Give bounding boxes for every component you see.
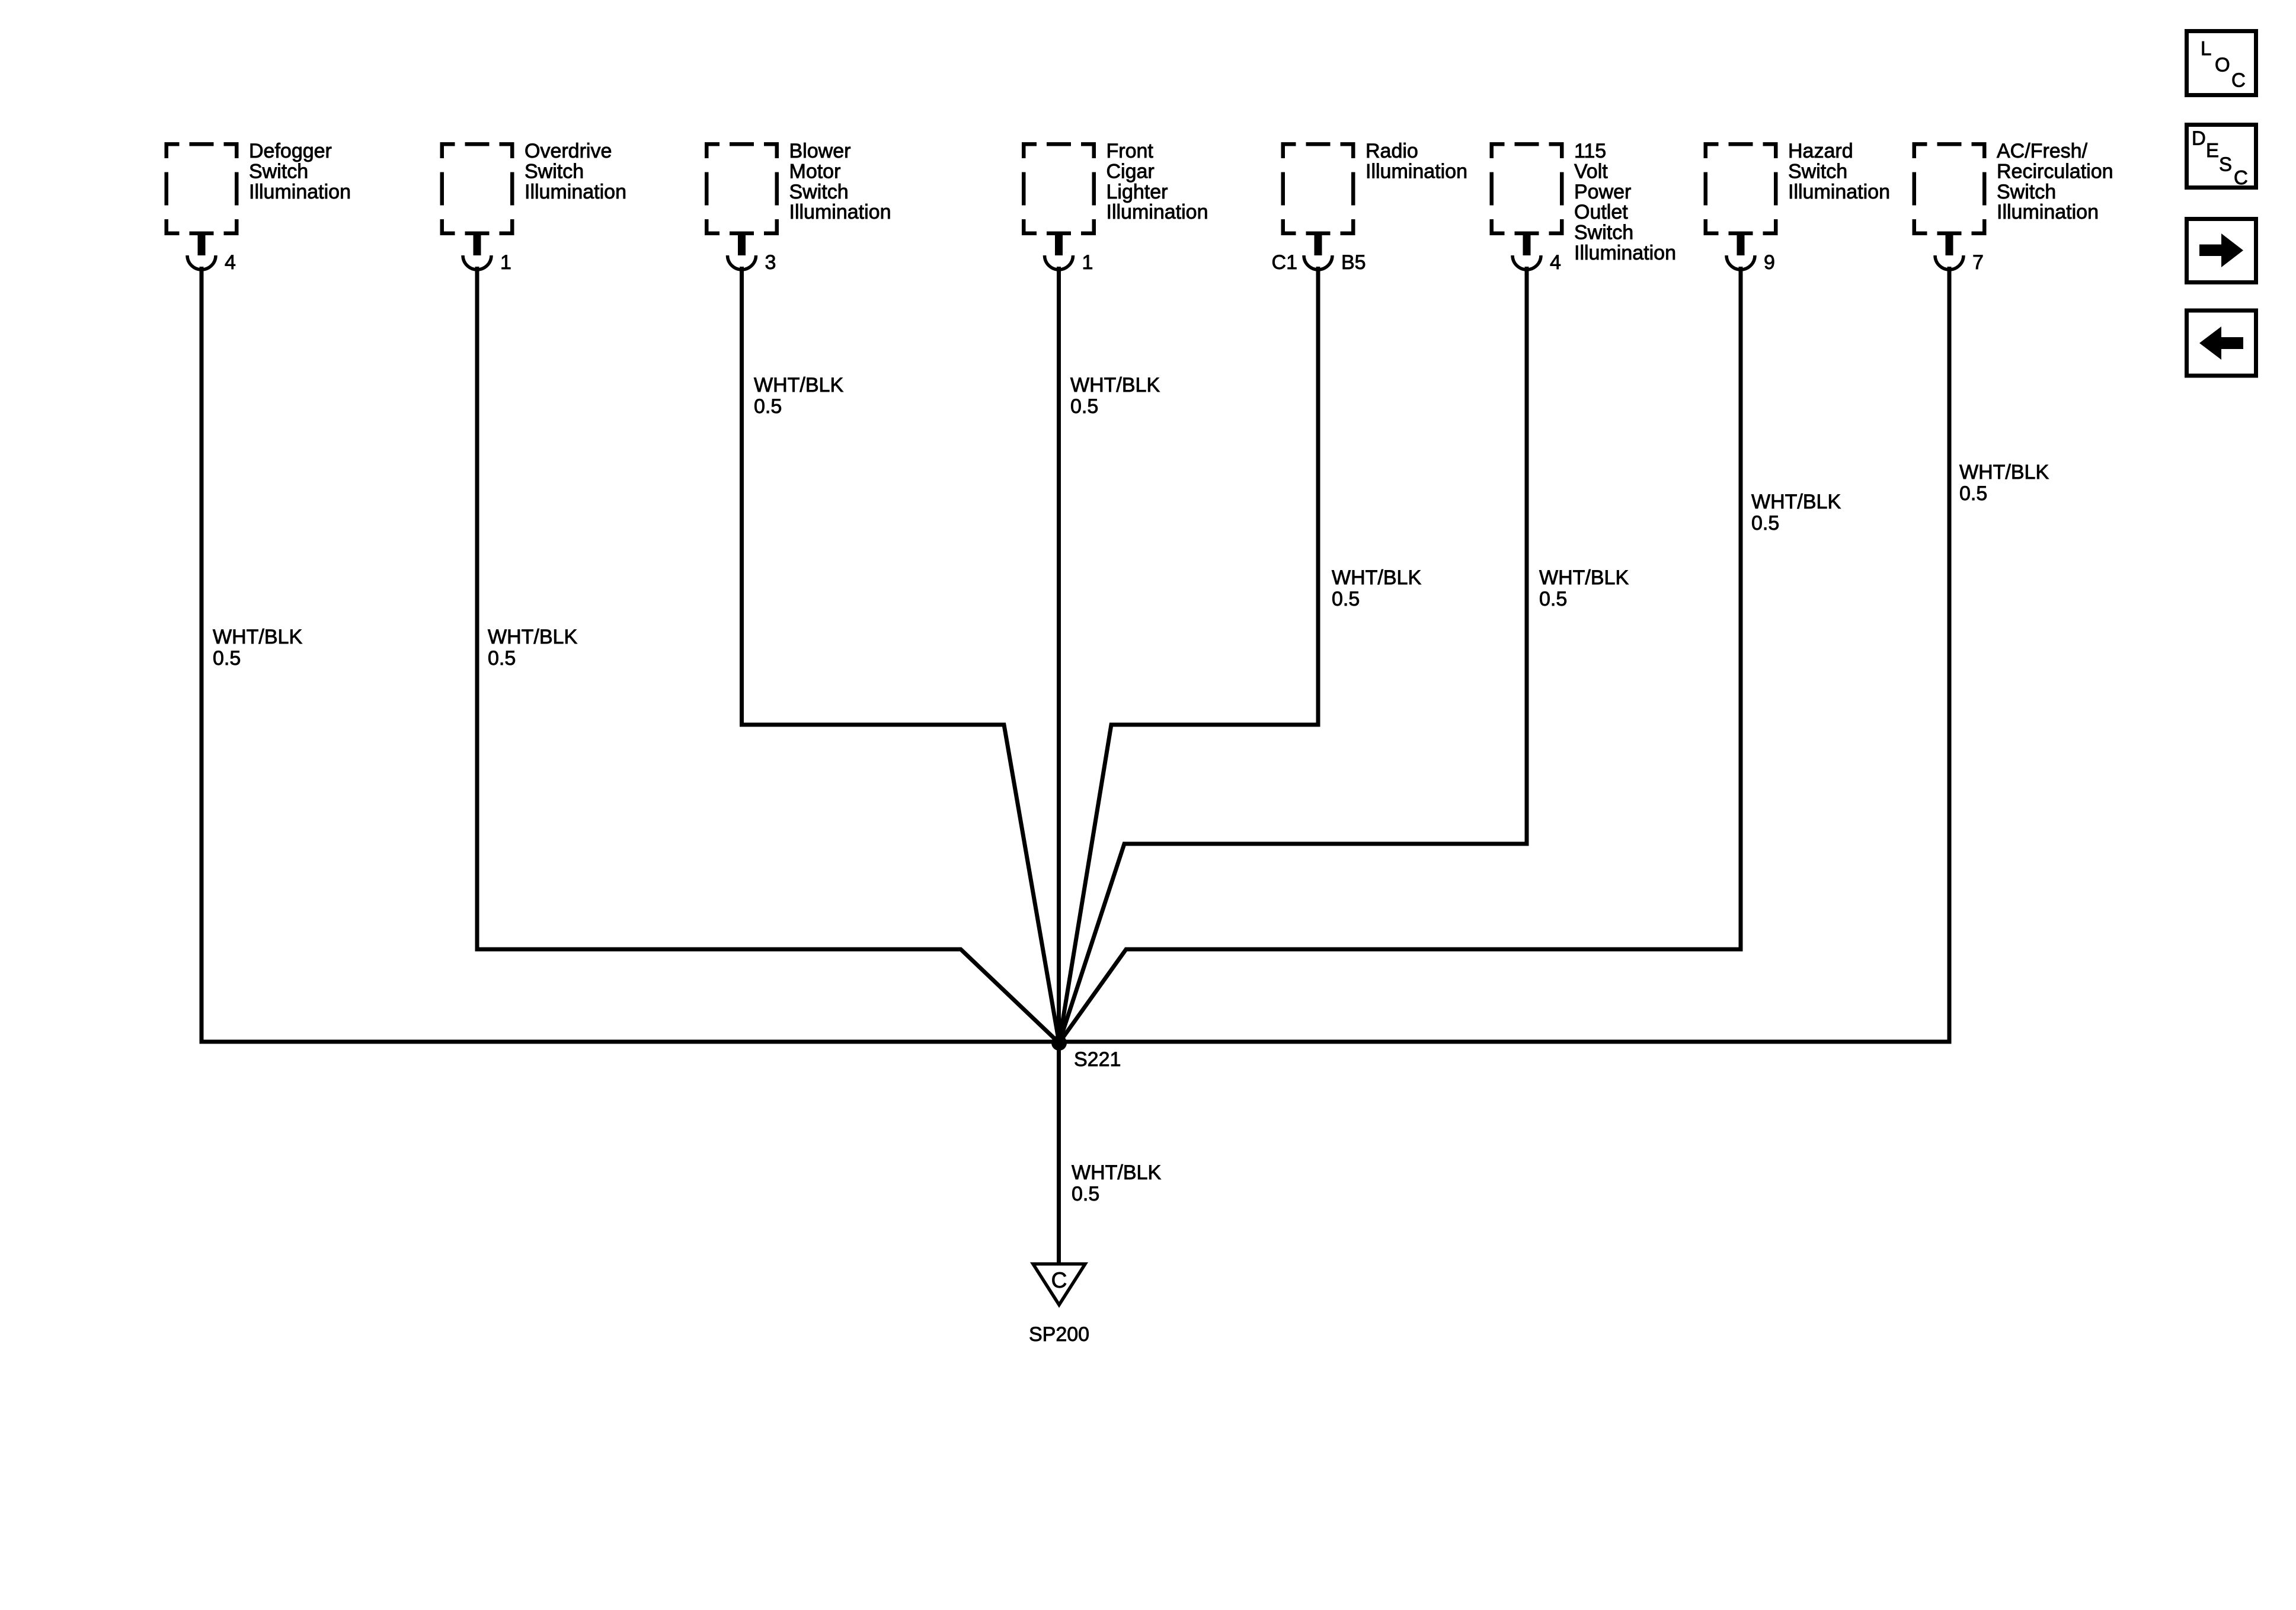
svg-text:E: E: [2206, 139, 2219, 161]
svg-text:S221: S221: [1074, 1048, 1121, 1071]
svg-text:Illumination: Illumination: [1788, 181, 1890, 203]
svg-text:AC/Fresh/: AC/Fresh/: [1997, 140, 2088, 162]
svg-text:Illumination: Illumination: [789, 201, 891, 223]
svg-text:WHT/BLK: WHT/BLK: [488, 626, 577, 648]
svg-text:Radio: Radio: [1366, 140, 1418, 162]
svg-text:Illumination: Illumination: [1366, 160, 1467, 183]
svg-text:Cigar: Cigar: [1107, 160, 1155, 183]
svg-text:Recirculation: Recirculation: [1997, 160, 2113, 183]
svg-text:O: O: [2215, 54, 2230, 76]
svg-text:L: L: [2201, 37, 2211, 59]
svg-text:3: 3: [765, 251, 776, 274]
svg-text:0.5: 0.5: [1332, 588, 1360, 610]
svg-text:1: 1: [500, 251, 511, 274]
svg-text:C: C: [2231, 69, 2246, 91]
svg-text:0.5: 0.5: [488, 647, 516, 670]
svg-text:SP200: SP200: [1029, 1323, 1089, 1346]
svg-text:Illumination: Illumination: [1574, 242, 1676, 264]
svg-text:0.5: 0.5: [1070, 395, 1098, 418]
svg-text:C1: C1: [1272, 251, 1297, 274]
svg-text:Defogger: Defogger: [249, 140, 332, 162]
svg-text:Outlet: Outlet: [1574, 201, 1628, 223]
svg-text:Switch: Switch: [1788, 160, 1847, 183]
svg-text:C: C: [1051, 1268, 1067, 1292]
svg-text:Switch: Switch: [789, 181, 849, 203]
svg-text:0.5: 0.5: [1539, 588, 1567, 610]
svg-text:0.5: 0.5: [754, 395, 782, 418]
svg-text:Motor: Motor: [789, 160, 841, 183]
svg-text:Illumination: Illumination: [525, 181, 626, 203]
svg-text:Illumination: Illumination: [249, 181, 351, 203]
svg-text:B5: B5: [1341, 251, 1366, 274]
svg-text:Lighter: Lighter: [1107, 181, 1168, 203]
svg-text:Illumination: Illumination: [1997, 201, 2099, 223]
svg-text:Blower: Blower: [789, 140, 851, 162]
svg-text:4: 4: [225, 251, 236, 274]
svg-text:WHT/BLK: WHT/BLK: [1959, 461, 2049, 484]
svg-text:7: 7: [1972, 251, 1984, 274]
svg-text:1: 1: [1082, 251, 1093, 274]
svg-text:0.5: 0.5: [1751, 512, 1779, 534]
svg-text:S: S: [2219, 153, 2232, 175]
svg-text:Volt: Volt: [1574, 160, 1608, 183]
svg-text:0.5: 0.5: [213, 647, 241, 670]
svg-text:Hazard: Hazard: [1788, 140, 1853, 162]
svg-text:D: D: [2192, 127, 2206, 149]
svg-text:WHT/BLK: WHT/BLK: [1070, 374, 1160, 396]
svg-text:WHT/BLK: WHT/BLK: [1539, 566, 1629, 589]
svg-text:Switch: Switch: [1574, 222, 1633, 244]
svg-text:Switch: Switch: [525, 160, 584, 183]
svg-text:115: 115: [1574, 140, 1606, 162]
svg-text:Front: Front: [1107, 140, 1154, 162]
svg-text:0.5: 0.5: [1959, 482, 1987, 505]
svg-text:WHT/BLK: WHT/BLK: [213, 626, 302, 648]
svg-text:Illumination: Illumination: [1107, 201, 1208, 223]
svg-text:Power: Power: [1574, 181, 1631, 203]
svg-text:WHT/BLK: WHT/BLK: [1751, 491, 1841, 513]
svg-text:WHT/BLK: WHT/BLK: [754, 374, 843, 396]
svg-text:0.5: 0.5: [1072, 1183, 1099, 1205]
svg-text:C: C: [2234, 167, 2248, 188]
svg-text:WHT/BLK: WHT/BLK: [1072, 1161, 1161, 1184]
svg-text:WHT/BLK: WHT/BLK: [1332, 566, 1421, 589]
svg-text:Overdrive: Overdrive: [525, 140, 612, 162]
svg-text:9: 9: [1764, 251, 1775, 274]
svg-text:4: 4: [1550, 251, 1561, 274]
svg-text:Switch: Switch: [1997, 181, 2056, 203]
svg-text:Switch: Switch: [249, 160, 308, 183]
